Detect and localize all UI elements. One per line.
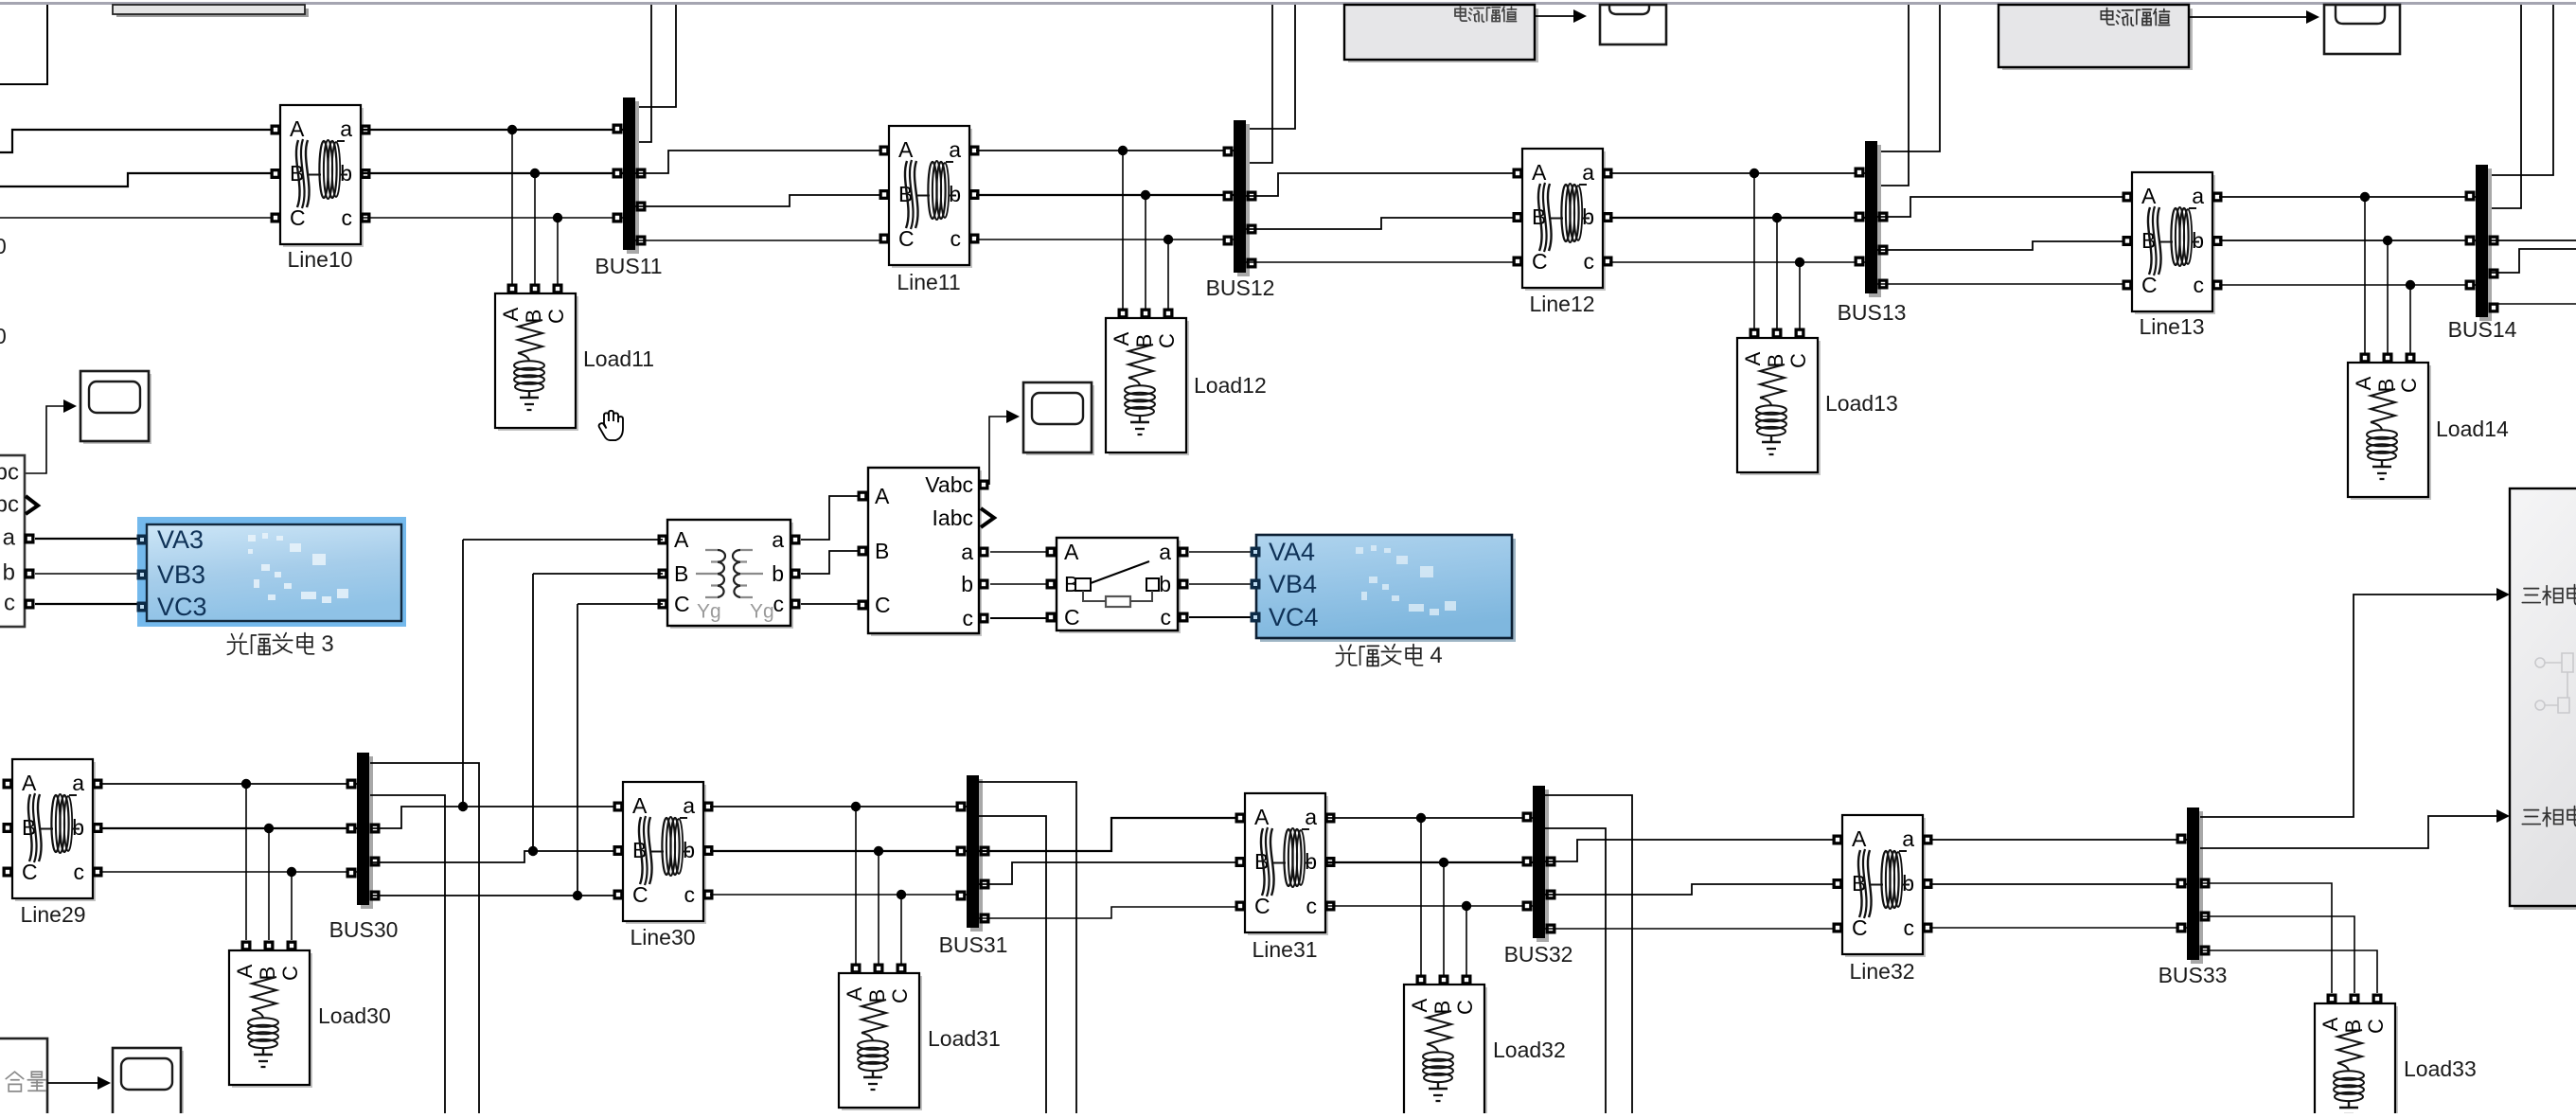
wire into Line10 C — [0, 217, 275, 219]
wire down to Load12 B — [1145, 195, 1146, 309]
svg-text:Yg: Yg — [750, 601, 774, 623]
wire top feeder to BUS11 (outer) — [634, 5, 676, 107]
wire transformer a to measurement A — [801, 496, 862, 540]
wire Line13 b to BUS14 — [2219, 240, 2476, 241]
svg-text:VA4: VA4 — [1269, 538, 1315, 566]
scope (PV4 Vabc) — [1023, 382, 1094, 455]
load block Load32 — [1404, 975, 1487, 1118]
wire down to Load32 A — [1420, 818, 1422, 975]
bus bar BUS14 — [2465, 165, 2499, 321]
svg-text:VC3: VC3 — [157, 593, 207, 621]
svg-text:a: a — [772, 527, 784, 552]
junction Load12 C — [1164, 235, 1173, 244]
svg-text:Load31: Load31 — [928, 1026, 1001, 1051]
wire down to Load12 A — [1122, 151, 1124, 309]
wire BUS32 to Line32 C — [1545, 928, 1837, 930]
wire vertical transformer A — [462, 540, 464, 807]
svg-text:Load33: Load33 — [2404, 1056, 2477, 1081]
scope (middle-left) — [80, 371, 151, 444]
wire BUS32 right down (inner) — [1545, 828, 1606, 1113]
line block Line31 — [1235, 793, 1336, 935]
partial block 含量 (bottom-left) — [0, 1038, 47, 1118]
wire BUS11 to Line11 B — [634, 195, 883, 206]
wire down to Load14 A — [2364, 197, 2366, 353]
line block Line11 — [879, 126, 980, 268]
line block Line12 — [1513, 149, 1613, 291]
bus bar BUS12 — [1223, 120, 1257, 276]
bus bar BUS13 — [1855, 141, 1889, 297]
arrowhead into scope5 — [98, 1076, 111, 1090]
svg-text:VA3: VA3 — [157, 525, 204, 554]
arrowhead into scope3 — [63, 399, 77, 413]
wire into Line10 A — [0, 130, 275, 152]
wire Line13 a to BUS14 — [2219, 196, 2476, 198]
wire BUS31 top right down (outer) — [979, 782, 1076, 1113]
load block Load30 — [229, 941, 312, 1089]
wire BUS33 to right block input 2 — [2200, 816, 2496, 848]
window chrome top border — [0, 2, 2576, 5]
wire Line10 a to BUS11 — [363, 129, 623, 131]
junction Load11 A — [507, 125, 517, 134]
wire down to Load14 B — [2387, 240, 2389, 353]
svg-text:B: B — [674, 561, 688, 586]
wire BUS30 to Line30 B — [370, 851, 617, 862]
junction Load31 C — [897, 890, 906, 899]
wire top feeder to BUS13 (inner) — [1877, 5, 1909, 186]
wire BUS12 to Line12 A — [1246, 173, 1517, 196]
wire Line31 c to BUS32 — [1326, 905, 1533, 907]
svg-text:Line31: Line31 — [1252, 937, 1317, 962]
wire top feeder to BUS13 (outer) — [1877, 5, 1940, 151]
wire Line32 c to BUS33 — [1929, 927, 2187, 929]
line block Line10 — [271, 105, 371, 247]
svg-text:c: c — [4, 590, 15, 615]
svg-text:Iabc: Iabc — [933, 506, 973, 530]
wire down to Load31 C — [900, 895, 902, 964]
svg-text:VB3: VB3 — [157, 560, 205, 589]
wire BUS32 to Line32 B — [1545, 884, 1837, 895]
svg-text:C: C — [1064, 605, 1080, 630]
wire 含量 to scope5 — [47, 1082, 98, 1084]
wire BUS31 right down (inner) — [979, 816, 1046, 1113]
line block Line13 — [2123, 172, 2223, 314]
svg-text:c: c — [1161, 605, 1172, 630]
wire BUS13 to Line13 B — [1877, 241, 2126, 250]
svg-text:Line12: Line12 — [1529, 292, 1594, 316]
three-phase V-I measurement block — [858, 468, 995, 636]
wire Line30 a to BUS31 — [710, 806, 967, 807]
load block Load31 — [839, 964, 922, 1111]
partial measurement block (left edge) — [0, 455, 25, 627]
svg-text:b: b — [772, 561, 784, 586]
svg-text:0: 0 — [0, 324, 7, 348]
junction transformer A tap — [458, 802, 468, 811]
junction Load14 C — [2406, 280, 2415, 290]
svg-text:b: b — [961, 572, 973, 596]
label 含量 — [6, 1072, 45, 1091]
junction Load32 A — [1416, 813, 1426, 823]
wire Line30 c to BUS31 — [710, 894, 967, 896]
bus bar BUS11 — [613, 98, 647, 254]
scope (top #1) — [1600, 5, 1666, 44]
svg-text:Load30: Load30 — [318, 1003, 391, 1028]
wire BUS14 right A to edge — [2490, 240, 2576, 241]
junction Load31 A — [851, 802, 861, 811]
wire BUS12 to Line12 C — [1246, 261, 1517, 263]
label 三相电 (input2) — [2522, 807, 2576, 826]
junction Load32 C — [1462, 901, 1471, 911]
svg-text:BUS11: BUS11 — [595, 254, 662, 278]
wire down to Load32 C — [1466, 906, 1467, 975]
wire top feeder to BUS14 (inner) — [2490, 5, 2521, 208]
wire a to VA3 — [35, 538, 137, 540]
label 光伏发电4 — [1336, 643, 1442, 668]
unconnected output chevron Iabc — [26, 496, 38, 514]
wire BUS31 to Line31 B — [979, 862, 1239, 884]
wire top feeder to BUS12 (inner) — [1246, 5, 1272, 163]
junction transformer B tap — [528, 846, 538, 856]
wire measurement a to breaker A — [990, 551, 1051, 553]
svg-text:A: A — [875, 484, 890, 508]
wire Line32 b to BUS33 — [1929, 883, 2187, 885]
load block Load11 — [495, 284, 578, 432]
junction Load31 B — [874, 846, 883, 856]
wire down to Load13 B — [1776, 218, 1778, 328]
wire Line12 b to BUS13 — [1609, 217, 1865, 219]
label 光伏发电3 — [227, 631, 333, 657]
wire BUS13 to Line13 C — [1877, 283, 2126, 285]
svg-text:Line13: Line13 — [2139, 314, 2204, 339]
line block Line29 — [3, 759, 103, 901]
svg-text:a: a — [1159, 540, 1171, 564]
svg-text:Load12: Load12 — [1194, 373, 1267, 398]
wire BUS33 to Load33 C — [2200, 950, 2377, 993]
wire into Line10 B — [0, 173, 275, 186]
wire BUS33 up to right block input 1 — [2200, 594, 2496, 817]
svg-text:C: C — [674, 592, 690, 616]
svg-text:C: C — [875, 593, 891, 617]
wire BUS12 to Line12 B — [1246, 218, 1517, 229]
junction Load12 A — [1118, 146, 1128, 155]
junction Load12 B — [1141, 190, 1150, 200]
wire down to Load12 C — [1167, 240, 1169, 309]
wire BUS30 C up to transformer C — [577, 603, 663, 605]
wire BUS30 top right down (outer) — [370, 763, 479, 1113]
svg-text:c: c — [963, 606, 974, 630]
svg-text:c: c — [773, 592, 785, 616]
partial block top-left corner — [0, 5, 47, 84]
svg-text:0: 0 — [0, 234, 7, 258]
arrowhead into scope2 — [2306, 10, 2319, 24]
svg-text:BUS33: BUS33 — [2159, 963, 2228, 987]
subsystem block 电流幅值 #1 — [1348, 9, 1538, 62]
wire breaker a to VA4 — [1189, 551, 1252, 553]
wire BUS30 to Line30 A — [370, 807, 617, 828]
subsystem block (right edge, 三相电...) — [2510, 488, 2576, 910]
wire BUS31 to Line31 A — [979, 818, 1239, 851]
svg-text:Line30: Line30 — [630, 925, 695, 949]
PV subsystem 光伏发电3 — [137, 517, 407, 627]
breaker switch symbol — [1075, 578, 1091, 591]
junction Load11 B — [530, 169, 540, 178]
wire down to Load14 C — [2409, 285, 2411, 353]
junction Load30 C — [287, 867, 296, 877]
wire Line29 a to BUS30 — [99, 783, 357, 785]
junction Load30 B — [264, 824, 274, 833]
wire 电流幅值1 to scope — [1535, 15, 1573, 17]
label 电流幅值 (block1 port) — [1455, 6, 1517, 22]
wire c to VC3 — [35, 603, 137, 605]
wire Line11 b to BUS12 — [976, 194, 1234, 196]
wire down to Load30 C — [291, 872, 293, 940]
svg-text:Line29: Line29 — [20, 902, 85, 927]
wire BUS30 A up to transformer A — [463, 539, 663, 541]
wire down to Load13 C — [1799, 262, 1801, 328]
wire Line10 b to BUS11 — [363, 172, 623, 174]
wire BUS31 to Line31 C — [979, 907, 1239, 918]
wire down to Load31 B — [878, 851, 879, 964]
wire BUS11 to Line11 C — [634, 240, 883, 241]
wire Line30 b to BUS31 — [710, 850, 967, 852]
wire BUS32 top right down (outer) — [1545, 795, 1632, 1113]
svg-text:BUS13: BUS13 — [1838, 300, 1907, 325]
wire down to Load30 A — [245, 784, 247, 940]
wire Vabc to scope4 — [989, 417, 1006, 485]
three-phase breaker block — [1046, 538, 1189, 633]
wire down to Load11 C — [557, 218, 559, 284]
junction Load30 A — [241, 779, 251, 789]
junction Load11 C — [553, 213, 562, 222]
svg-text:Load11: Load11 — [583, 346, 654, 371]
svg-text:VB4: VB4 — [1269, 570, 1317, 598]
svg-text:BUS14: BUS14 — [2448, 317, 2517, 342]
wire Line13 c to BUS14 — [2219, 284, 2476, 286]
svg-text:A: A — [674, 527, 689, 552]
junction Load13 B — [1772, 213, 1782, 222]
svg-text:bc: bc — [0, 459, 19, 485]
bus bar BUS33 — [2176, 807, 2211, 964]
wire measurement b to breaker B — [990, 583, 1051, 585]
svg-text:A: A — [1064, 540, 1079, 564]
wire BUS33 to Load33 B — [2200, 916, 2354, 993]
wire Line29 c to BUS30 — [99, 871, 357, 873]
line block Line32 — [1833, 815, 1933, 957]
junction Load32 B — [1439, 858, 1448, 867]
line block Line30 — [613, 782, 714, 924]
wire Vabc to scope3 — [25, 406, 63, 473]
wire BUS11 to Line11 A — [634, 151, 883, 173]
junction Load13 A — [1750, 169, 1759, 178]
gray subsystem slab (partial, top edge) — [116, 9, 309, 17]
svg-text:Line10: Line10 — [287, 247, 352, 272]
wire BUS32 to Line32 A — [1545, 840, 1837, 861]
wire Line29 b to BUS30 — [99, 827, 357, 829]
wire Line32 a to BUS33 — [1929, 839, 2187, 841]
wire top feeder to BUS11 (inner) — [634, 5, 651, 142]
svg-text:a: a — [3, 524, 16, 550]
wire vertical transformer C — [577, 604, 578, 896]
wire BUS30 right down (inner) — [370, 795, 445, 1113]
wire Line31 a to BUS32 — [1326, 817, 1533, 819]
wire measurement c to breaker C — [990, 617, 1051, 619]
transformer block Yg-Yg — [658, 520, 801, 629]
subsystem block 电流幅值 #2 — [2002, 9, 2193, 70]
wire Line31 b to BUS32 — [1326, 861, 1533, 863]
svg-text:a: a — [961, 540, 973, 564]
wire breaker c to VC4 — [1189, 616, 1252, 618]
wire BUS30 B up to transformer B — [533, 573, 663, 575]
wire b to VB3 — [35, 573, 137, 575]
wire BUS13 to Line13 A — [1877, 197, 2126, 217]
wire top feeder to BUS12 (outer) — [1246, 5, 1295, 129]
svg-text:bc: bc — [0, 491, 19, 517]
svg-text:Line11: Line11 — [897, 270, 960, 294]
svg-text:BUS12: BUS12 — [1206, 275, 1275, 300]
bus bar BUS30 — [346, 753, 381, 909]
junction transformer C tap — [573, 891, 582, 900]
wire BUS14 right B to edge — [2490, 249, 2576, 273]
svg-text:Load14: Load14 — [2436, 417, 2509, 441]
wire top feeder to BUS14 (outer) — [2490, 5, 2553, 175]
svg-text:Line32: Line32 — [1849, 959, 1914, 984]
scope (bottom-left) — [113, 1048, 184, 1118]
bus bar BUS32 — [1522, 786, 1556, 942]
wire 电流幅值2 to scope — [2189, 16, 2306, 18]
wire BUS33 to Load33 A — [2200, 883, 2332, 993]
svg-text:Load32: Load32 — [1493, 1038, 1566, 1062]
svg-text:3: 3 — [321, 631, 333, 657]
svg-text:B: B — [875, 539, 889, 563]
wire Line12 c to BUS13 — [1609, 261, 1865, 263]
svg-text:b: b — [3, 559, 15, 585]
junction Load14 A — [2360, 192, 2370, 202]
load block Load12 — [1106, 309, 1189, 456]
svg-text:Load13: Load13 — [1825, 391, 1898, 416]
scope (top #2) — [2324, 5, 2400, 54]
wire Line10 c to BUS11 — [363, 217, 623, 219]
bus bar BUS31 — [956, 775, 990, 932]
wire down to Load32 B — [1443, 862, 1445, 975]
arrowhead into scope1 — [1573, 9, 1587, 23]
wire down to Load30 B — [268, 828, 270, 940]
svg-text:b: b — [1159, 572, 1171, 596]
svg-text:VC4: VC4 — [1269, 603, 1319, 631]
junction Load14 B — [2383, 236, 2392, 245]
wire BUS30 to Line30 C — [370, 895, 617, 896]
arrowhead into 三相电 input 2 — [2496, 809, 2510, 823]
wire down to Load11 B — [534, 173, 536, 284]
svg-text:BUS32: BUS32 — [1504, 942, 1573, 967]
svg-text:Yg: Yg — [697, 601, 721, 623]
svg-text:BUS30: BUS30 — [329, 917, 399, 942]
svg-text:BUS31: BUS31 — [939, 932, 1008, 957]
hand cursor icon — [599, 411, 623, 440]
wire breaker b to VB4 — [1189, 583, 1252, 585]
wire down to Load31 A — [855, 807, 857, 964]
wire Line12 a to BUS13 — [1609, 172, 1865, 174]
arrowhead into 三相电 input 1 — [2496, 588, 2510, 601]
load block Load13 — [1737, 328, 1821, 476]
wire Line11 a to BUS12 — [976, 150, 1234, 151]
wire down to Load13 A — [1753, 173, 1755, 328]
wire Line11 c to BUS12 — [976, 239, 1234, 240]
wire down to Load11 A — [511, 130, 513, 284]
wire transformer b to measurement B — [801, 551, 862, 574]
PV subsystem 光伏发电4 — [1251, 535, 1517, 642]
wire transformer c to measurement C — [801, 603, 862, 605]
junction Load13 C — [1795, 257, 1804, 267]
arrowhead into scope4 — [1006, 410, 1020, 423]
wire vertical transformer B — [532, 574, 534, 851]
load block Load14 — [2348, 353, 2431, 501]
label 三相电 (input1) — [2522, 585, 2576, 605]
load block Load33 — [2315, 994, 2398, 1118]
wire BUS14 right C to edge — [2490, 303, 2576, 305]
svg-text:4: 4 — [1430, 643, 1442, 668]
label 电流幅值 (block2 port) — [2101, 8, 2169, 26]
svg-text:Vabc: Vabc — [925, 472, 973, 497]
